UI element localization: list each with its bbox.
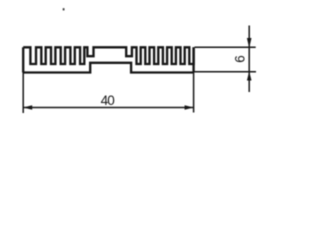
right wall (192, 47, 194, 72)
svg-text:6: 6 (233, 55, 248, 63)
dimension line 40 (23, 107, 193, 109)
dimension line 6 (vertical) (248, 26, 250, 93)
extension line right (40 dim) (193, 73, 195, 113)
arrow left of 40 (23, 105, 32, 109)
svg-text:40: 40 (101, 93, 115, 108)
extension line bottom (6 dim) (195, 71, 257, 73)
arrow bottom of 6 (pointing up) (247, 71, 252, 80)
bottom contour with recess (23, 63, 193, 73)
speck artifact (63, 8, 65, 10)
extension line top (6 dim) (195, 46, 256, 48)
left wall (22, 47, 24, 72)
extension line left (40 dim) (22, 73, 24, 114)
heatsink profile top contour (fins + plateau) (23, 47, 193, 64)
arrow right of 40 (185, 105, 194, 109)
arrow top of 6 (pointing down) (247, 38, 252, 48)
